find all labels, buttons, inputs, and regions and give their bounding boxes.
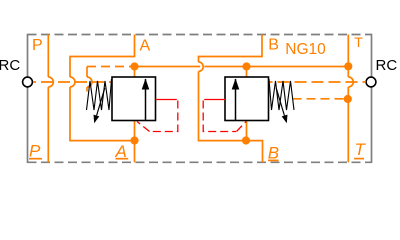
- node T junction valve V1: [130, 62, 138, 70]
- wire left spring vent drop: [86, 67, 88, 78]
- relief valve V2 adjustment arrow: [276, 88, 284, 116]
- svg-text:T: T: [354, 34, 363, 50]
- svg-text:NG10: NG10: [285, 41, 326, 58]
- svg-text:RC: RC: [0, 57, 20, 74]
- pilot line V2 dashed loop: [203, 101, 236, 132]
- svg-text:P: P: [32, 37, 43, 54]
- wire left vent line-hop over RC pilot: [87, 77, 92, 87]
- wire A bottom stem: [134, 121, 136, 163]
- wire P through-line lower: [47, 87, 49, 162]
- wire valve V2 bottom stem: [246, 121, 248, 141]
- wire left vent tail: [86, 87, 88, 92]
- relief valve V2 body: [225, 77, 269, 121]
- pilot line V1 dashed loop: [150, 101, 178, 132]
- port RC left circle: [23, 77, 33, 87]
- node A junction bottom: [130, 136, 138, 144]
- pilot line V2 solid segment: [204, 99, 225, 101]
- node T vent junction: [344, 95, 352, 103]
- pilot line V2 diagonal: [237, 122, 247, 132]
- wire valve V1 top stem: [134, 67, 136, 78]
- wire B left bypass lower: [199, 71, 263, 162]
- wire T through-line lower: [347, 87, 349, 162]
- wire P through-line: [47, 35, 49, 78]
- wire T rail vent segment (dashed): [87, 66, 135, 68]
- wire P line-hop over RC pilot: [48, 77, 53, 87]
- relief valve V1 adjustment arrow: [97, 88, 105, 116]
- enclosure border bottom (dashed): [28, 161, 372, 163]
- node T junction valve V2: [242, 62, 250, 70]
- wire A line-hop over RC pilot: [70, 77, 75, 87]
- svg-text:B: B: [268, 37, 279, 54]
- wire RC left pilot (dashed): [33, 81, 112, 83]
- wire right spring vent (dashed): [293, 98, 345, 100]
- relief valve V2 flow arrow: [235, 79, 237, 121]
- relief valve V1 flow arrow: [145, 79, 147, 121]
- wire T through-line upper: [347, 35, 349, 78]
- svg-text:A: A: [140, 37, 151, 54]
- node T rail junction: [344, 62, 352, 70]
- svg-text:RC: RC: [376, 57, 398, 74]
- wire T line-hop over RC pilot: [348, 77, 353, 87]
- relief valve V1 body: [112, 77, 156, 121]
- enclosure border left (solid): [27, 34, 29, 163]
- svg-text:T: T: [355, 140, 367, 159]
- enclosure border right (solid): [371, 34, 373, 163]
- relief valve V1 spring: [87, 79, 112, 110]
- wire A top tab: [70, 35, 135, 78]
- node B junction bottom: [242, 136, 250, 144]
- svg-text:P: P: [29, 141, 41, 160]
- wire T rail solid: [135, 66, 349, 68]
- port RC right circle: [366, 77, 376, 87]
- wire valve V2 top stem: [246, 67, 248, 78]
- wire A left bypass lower: [70, 87, 135, 141]
- pilot line V1 diagonal: [137, 122, 150, 132]
- pilot line V1 solid segment: [156, 99, 177, 101]
- wire B line-hop over T rail: [199, 62, 204, 71]
- wire RC right pilot (dashed): [269, 81, 366, 83]
- relief valve V2 spring: [269, 79, 294, 110]
- enclosure border top (dashed): [28, 34, 372, 36]
- wire B top tab: [199, 35, 263, 63]
